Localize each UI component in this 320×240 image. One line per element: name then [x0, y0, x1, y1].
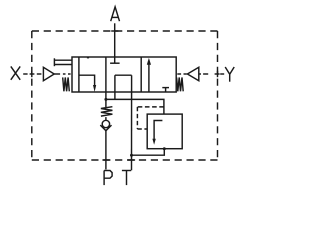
relief pilot dashed line	[137, 107, 164, 129]
wire: relief outlet to T	[132, 149, 165, 156]
check valve spring	[101, 107, 113, 116]
wire: P drop from valve	[105, 92, 107, 107]
pilot dash valve to right triangle	[177, 73, 187, 75]
wire: A line	[114, 23, 116, 57]
port label Y	[225, 67, 234, 82]
stroke adjuster rod	[54, 58, 72, 66]
pilot line X dashes	[23, 73, 41, 75]
junction T outlet	[130, 154, 133, 157]
port label A	[111, 7, 120, 21]
left cell flow path with arrow	[79, 75, 96, 92]
port label T	[122, 171, 131, 186]
pilot operator right (triangle)	[187, 67, 198, 80]
port label X	[11, 66, 20, 79]
spring right	[177, 77, 184, 91]
check valve ball	[102, 120, 109, 127]
valve section divider 3	[140, 57, 142, 92]
relief valve flow arrow	[152, 121, 162, 145]
pilot dash left triangle to valve	[54, 73, 70, 75]
directional valve body	[72, 57, 176, 92]
spring left	[63, 77, 70, 91]
pilot operator left (triangle)	[43, 67, 54, 80]
right cell blocked T port	[162, 88, 169, 92]
right cell up arrow	[147, 58, 151, 92]
wire: T line	[131, 75, 133, 170]
wire: to P port	[105, 131, 107, 170]
valve section divider 2	[105, 57, 107, 92]
check valve seat	[100, 125, 111, 131]
wire: bus to relief inlet	[106, 99, 164, 114]
valve section divider 1	[78, 57, 80, 92]
relief valve box	[147, 114, 182, 149]
center cell blocked A port	[110, 57, 120, 63]
enclosure dashed border	[32, 31, 218, 160]
wire spring to ball	[105, 117, 107, 120]
junction relief outlet	[163, 147, 166, 150]
junction stub on top edge	[87, 57, 89, 59]
center cell U path	[115, 75, 132, 99]
port label P	[104, 171, 112, 186]
junction P bus	[104, 98, 107, 101]
pilot line Y dashes	[199, 73, 224, 75]
